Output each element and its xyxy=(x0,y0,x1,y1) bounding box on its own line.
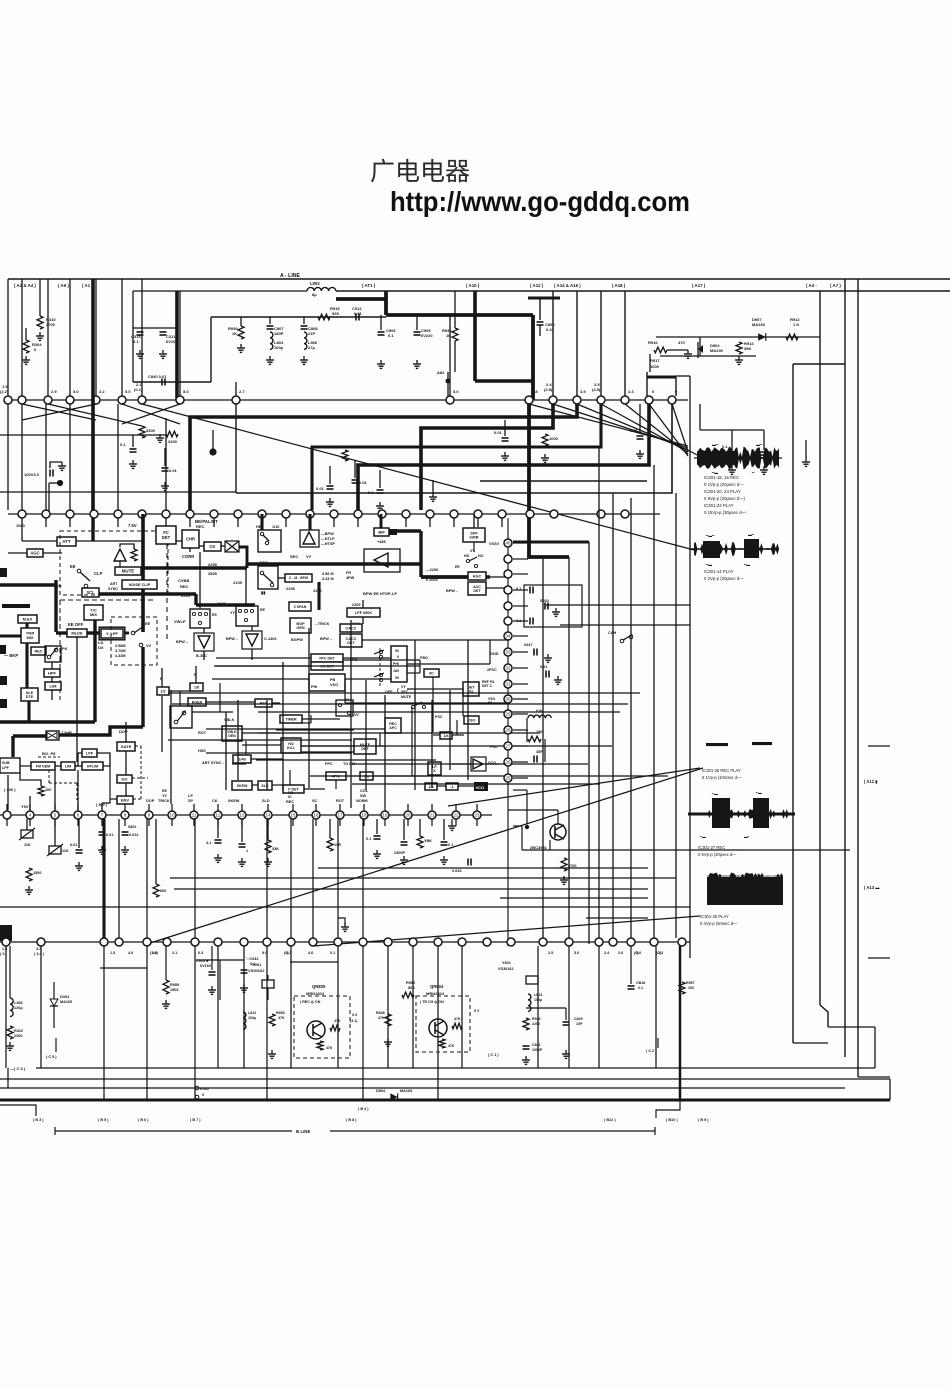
svg-text:3.58 M: 3.58 M xyxy=(322,572,334,576)
svg-text:9C: 9C xyxy=(429,671,434,675)
box 1/40 xyxy=(233,755,251,763)
svg-text:1.5: 1.5 xyxy=(110,951,115,955)
svg-text:8μ: 8μ xyxy=(312,292,317,297)
wire right verticals to row4 xyxy=(542,557,544,938)
svg-text:0.1: 0.1 xyxy=(120,442,126,447)
svg-text:2FSC: 2FSC xyxy=(487,668,497,672)
svg-text:BO- P8: BO- P8 xyxy=(42,751,56,756)
gnd far right xyxy=(805,458,807,462)
svg-text:SKEW: SKEW xyxy=(228,799,240,803)
dashed fm dem down xyxy=(48,770,50,783)
wire top-right horizontal d-row xyxy=(656,336,820,338)
wire branch to diodes xyxy=(699,337,701,356)
svg-text:╾▬: ╾▬ xyxy=(699,835,706,839)
resistor 660 xyxy=(153,884,159,897)
capacitor 3.1 xyxy=(217,819,219,838)
svg-text:AGC: AGC xyxy=(30,551,39,556)
svg-text:MA165: MA165 xyxy=(60,1000,72,1004)
svg-text:470: 470 xyxy=(678,340,685,345)
svg-text:5.0: 5.0 xyxy=(453,389,459,394)
svg-text:18: 18 xyxy=(362,813,367,818)
svg-text:15K: 15K xyxy=(536,730,543,734)
wire thick y722 to left xyxy=(0,720,95,723)
svg-text:0.01: 0.01 xyxy=(630,428,639,433)
switch EE VV left xyxy=(77,569,81,573)
svg-text:23: 23 xyxy=(475,813,480,818)
svg-text:IC301-27 REC: IC301-27 REC xyxy=(698,845,725,850)
wire b-line xyxy=(55,1130,292,1132)
svg-text:YY: YY xyxy=(230,611,236,615)
svg-text:100μ: 100μ xyxy=(534,998,542,1002)
node row4 x244 xyxy=(240,938,248,946)
svg-text:DTE: DTE xyxy=(26,695,34,699)
svg-text:90: 90 xyxy=(395,676,399,680)
svg-text:YBK: YBK xyxy=(424,839,432,843)
wire thick drop 262 xyxy=(260,514,263,530)
svg-text:GND: GND xyxy=(490,652,499,656)
svg-text:30: 30 xyxy=(506,697,511,702)
svg-text:R848: R848 xyxy=(376,1011,385,1015)
node row1 x672 xyxy=(668,396,676,404)
wire pin row 4 xyxy=(0,941,690,943)
svg-text:R955: R955 xyxy=(170,983,179,987)
box BM xyxy=(374,528,389,536)
box 4PHI xyxy=(326,772,346,780)
svg-text:SP: SP xyxy=(188,799,194,803)
wire thick left block bars xyxy=(0,583,55,586)
capacitor r4 xyxy=(761,451,768,453)
svg-text:0 4Vp-p (5msec d—: 0 4Vp-p (5msec d— xyxy=(700,921,738,926)
svg-text:28: 28 xyxy=(506,728,511,733)
svg-text:0.033: 0.033 xyxy=(452,869,462,873)
svg-text:160: 160 xyxy=(688,986,694,990)
svg-text:http://www.go-gddq.com: http://www.go-gddq.com xyxy=(390,186,690,217)
svg-text:0 1: 0 1 xyxy=(448,843,453,847)
node row4 x41 xyxy=(37,938,45,946)
amp right small xyxy=(471,757,486,771)
wire long horiz y435 xyxy=(0,434,166,436)
svg-text:SC: SC xyxy=(312,799,318,803)
amp tri C-1403 xyxy=(242,631,262,649)
svg-text:( C 2 ): ( C 2 ) xyxy=(646,1049,657,1053)
wire row3 stubs up xyxy=(6,804,8,811)
capacitor C906 xyxy=(380,315,382,330)
node row4 x218 xyxy=(214,938,222,946)
box YNR MIX xyxy=(21,628,39,643)
box H/2 KILL xyxy=(281,738,301,753)
dashed boundary y600 xyxy=(60,599,156,601)
svg-text:□ C942: □ C942 xyxy=(246,957,258,961)
node row3 pin 19 xyxy=(381,811,389,819)
svg-text:0 5Vp-p (20μsec d—: 0 5Vp-p (20μsec d— xyxy=(698,852,737,857)
svg-text:ART: ART xyxy=(110,582,118,586)
svg-text:SKEW: SKEW xyxy=(237,784,248,788)
svg-text:19: 19 xyxy=(383,813,388,818)
wire bottom stubs xyxy=(103,1068,105,1100)
capacitor 0.01 b3b xyxy=(99,831,106,833)
svg-text:6.3: 6.3 xyxy=(198,951,203,955)
capacitor C900 xyxy=(537,321,544,323)
amp box BPW NTLP HTSP xyxy=(300,530,319,547)
svg-text:—NTLP: —NTLP xyxy=(321,537,335,541)
node dot 100v xyxy=(57,480,63,486)
wire x690 long vertical xyxy=(689,376,691,958)
resistor 2200 inter-row xyxy=(166,431,178,437)
svg-text:LPF: LPF xyxy=(86,751,94,755)
svg-text:—2206: —2206 xyxy=(426,568,438,572)
svg-text:1.8: 1.8 xyxy=(532,389,538,394)
waveform IC301-18 blob xyxy=(697,446,779,469)
svg-text:34: 34 xyxy=(506,634,511,639)
box ACC DET xyxy=(468,582,486,595)
box FM DEM xyxy=(31,762,55,770)
amp triangle mute xyxy=(114,549,126,561)
node row2 x190 xyxy=(186,510,194,518)
svg-text:0 15Vp-p (30μsec d—:: 0 15Vp-p (30μsec d—: xyxy=(704,510,747,515)
box LIM 2 xyxy=(61,762,75,770)
svg-text:→TRICK: →TRICK xyxy=(314,622,330,626)
svg-text:L903: L903 xyxy=(310,281,320,286)
svg-text:VCO: VCO xyxy=(488,761,496,765)
svg-text:11K: 11K xyxy=(62,849,69,853)
wire row3 stubs down xyxy=(6,819,8,826)
svg-text:REC: REC xyxy=(260,561,268,565)
capacitor right small xyxy=(467,859,469,866)
svg-text:ART SYNC→: ART SYNC→ xyxy=(202,761,225,765)
svg-text:1505: 1505 xyxy=(170,988,178,992)
svg-text:( B 9 ): ( B 9 ) xyxy=(698,1118,709,1122)
node row1 x70 xyxy=(66,396,74,404)
svg-text:DET: DET xyxy=(162,535,171,540)
wire bottom verticals xyxy=(5,946,7,1068)
svg-text:D804: D804 xyxy=(376,1089,386,1093)
pointer line IC301-26 xyxy=(448,768,700,806)
svg-text:2300: 2300 xyxy=(14,1034,22,1038)
wire thick y570 right xyxy=(143,566,247,570)
wire bottom line 2 xyxy=(0,1078,890,1080)
svg-text:6.01: 6.01 xyxy=(70,843,77,847)
svg-text:7.5dB: 7.5dB xyxy=(61,730,72,735)
svg-text:╾▬╾: ╾▬╾ xyxy=(705,534,715,538)
wire thick vertical x104 xyxy=(102,819,105,938)
node row4 x313 xyxy=(309,938,317,946)
node row2 x142 xyxy=(138,510,146,518)
wire elbow G xyxy=(480,480,647,482)
svg-text:CK: CK xyxy=(212,799,218,803)
wire pin column xyxy=(507,518,509,946)
svg-text:0.1: 0.1 xyxy=(366,837,371,841)
svg-text:ROT: ROT xyxy=(336,799,345,803)
capacitor 1 b3 xyxy=(241,819,243,842)
node row4 x338 xyxy=(334,938,342,946)
svg-text:0.1: 0.1 xyxy=(250,962,255,966)
transistor 2BC3931 xyxy=(550,824,566,840)
long wire y889 xyxy=(174,888,648,890)
wire thick drop 381 xyxy=(380,514,383,528)
wire thick drop x93 xyxy=(91,279,95,514)
contact block VWLP xyxy=(190,609,210,628)
svg-text:GEN: GEN xyxy=(296,626,304,630)
svg-text:BPW→: BPW→ xyxy=(320,637,333,641)
node row3 pin 18 xyxy=(360,811,368,819)
wire left thick net xyxy=(25,623,28,628)
svg-text:( A2 & A4 ): ( A2 & A4 ) xyxy=(14,283,36,288)
left edge black box low xyxy=(0,925,12,941)
svg-text:180: 180 xyxy=(393,669,399,673)
node row3 pin 23 xyxy=(473,811,481,819)
capacitor 0.1 b3c xyxy=(443,819,445,840)
svg-text:DET C: DET C xyxy=(482,684,493,688)
svg-text:MIX: MIX xyxy=(26,635,33,640)
box 1/a fsc xyxy=(440,732,452,739)
svg-text:660: 660 xyxy=(160,889,166,893)
svg-text:MRN2404: MRN2404 xyxy=(426,991,445,996)
node row1 x48 xyxy=(44,396,52,404)
box AGC xyxy=(27,549,43,557)
svg-text:29: 29 xyxy=(506,712,511,717)
svg-text:15: 15 xyxy=(291,813,296,818)
node row2 x262 xyxy=(258,510,266,518)
wire thick x93 below row2 xyxy=(91,518,94,541)
svg-text:35P: 35P xyxy=(536,750,543,754)
node row1 x625 xyxy=(621,396,629,404)
node column pin 30 xyxy=(504,695,512,703)
svg-text:( 300 ): ( 300 ) xyxy=(4,787,16,792)
long wire y878 xyxy=(170,877,676,879)
node row2 x46 xyxy=(42,510,50,518)
svg-text:VWLP: VWLP xyxy=(174,619,186,624)
resistor 4700 xyxy=(561,858,567,871)
svg-text:— BKP: — BKP xyxy=(4,653,18,658)
capacitor 0.01 a xyxy=(162,467,169,469)
svg-text:( A14 & A16 ): ( A14 & A16 ) xyxy=(554,283,581,288)
node row2 x334 xyxy=(330,510,338,518)
switch pair lower xyxy=(170,706,192,728)
resistor R955 xyxy=(163,980,169,994)
svg-text:2.3: 2.3 xyxy=(628,389,634,394)
wire waveform box bottom xyxy=(793,1042,828,1044)
node row2 x382 xyxy=(378,510,386,518)
node row2 x358 xyxy=(354,510,362,518)
svg-text:PB: PB xyxy=(330,678,336,682)
svg-text:525: 525 xyxy=(332,311,339,316)
svg-text:Y5V: Y5V xyxy=(21,804,29,809)
box SLD xyxy=(258,781,272,790)
svg-text:FPC: FPC xyxy=(325,762,333,766)
svg-text:( TR CH ◎ ON: ( TR CH ◎ ON xyxy=(420,1000,444,1004)
svg-text:A82: A82 xyxy=(437,370,445,375)
svg-text:IC301-22 PLAY: IC301-22 PLAY xyxy=(704,503,734,508)
svg-text:100: 100 xyxy=(45,788,51,792)
svg-text:630R: 630R xyxy=(469,535,478,539)
svg-text:5.0: 5.0 xyxy=(125,389,131,394)
node column pin 574 xyxy=(504,570,512,578)
switch box HB xyxy=(258,530,281,552)
svg-text:(2.8): (2.8) xyxy=(544,387,553,392)
box REC AFC xyxy=(385,718,401,733)
svg-text:CAH: CAH xyxy=(608,631,616,635)
svg-text:▬╾: ▬╾ xyxy=(712,443,719,447)
node row1 x450 xyxy=(446,396,454,404)
svg-text:12: 12 xyxy=(216,813,221,818)
svg-text:K302: K302 xyxy=(200,1087,209,1091)
svg-text:1/16: 1/16 xyxy=(272,525,279,529)
box PHI PB VSO xyxy=(309,674,345,691)
svg-text:33K: 33K xyxy=(272,847,279,851)
node row3 pin 7 xyxy=(3,811,11,819)
svg-text:IC301-20, 24 PLAY: IC301-20, 24 PLAY xyxy=(704,489,741,494)
svg-text:R853: R853 xyxy=(276,1011,285,1015)
svg-text:(1.6): (1.6) xyxy=(150,951,159,955)
svg-text:VSSV: VSSV xyxy=(489,542,500,546)
svg-text:Y. LPF: Y. LPF xyxy=(106,631,119,636)
svg-text:LIM: LIM xyxy=(65,764,72,768)
box VSO right xyxy=(464,716,479,724)
svg-text:10: 10 xyxy=(170,813,175,818)
node row1 x96 xyxy=(92,396,100,404)
svg-text:MUTE: MUTE xyxy=(401,695,412,699)
box PSD xyxy=(255,699,272,707)
node column pin 31 xyxy=(504,680,512,688)
svg-text:—HTSP: —HTSP xyxy=(321,542,335,546)
svg-text:HO: HO xyxy=(478,554,484,558)
svg-text:0.1: 0.1 xyxy=(722,444,728,449)
svg-text:MIX: MIX xyxy=(90,612,97,617)
svg-text:R960: R960 xyxy=(406,981,415,985)
svg-text:╾▬: ╾▬ xyxy=(755,791,762,795)
node row1 x649 xyxy=(645,396,653,404)
node row3 pin 17 xyxy=(336,811,344,819)
wire elbow F thick xyxy=(529,404,569,557)
svg-text:DET: DET xyxy=(473,589,481,593)
box CACC xyxy=(340,624,362,632)
switch box REC mid xyxy=(258,566,278,589)
svg-text:C940 0.01: C940 0.01 xyxy=(148,374,167,379)
dashed gate-do-env xyxy=(135,745,141,747)
wire drops right top xyxy=(552,291,554,396)
box MUTE xyxy=(115,567,141,575)
svg-text:▬╾: ▬╾ xyxy=(748,533,755,537)
svg-text:C - M - BPW: C - M - BPW xyxy=(289,576,309,580)
svg-text:DX: DX xyxy=(98,645,104,650)
svg-text:BGPW: BGPW xyxy=(291,638,303,642)
gnd mid lower xyxy=(338,918,345,925)
svg-text:( B 5 ): ( B 5 ) xyxy=(98,1118,109,1122)
node row3 pin 14 xyxy=(264,811,272,819)
svg-text:MLDE: MLDE xyxy=(71,630,83,635)
svg-text:HSS: HSS xyxy=(198,749,206,753)
svg-text:EE: EE xyxy=(260,608,266,612)
svg-text:R322: R322 xyxy=(14,1029,23,1033)
box T/C MIX xyxy=(84,605,103,620)
node row2 x454 xyxy=(450,510,458,518)
svg-text:R917: R917 xyxy=(650,358,660,363)
wire thick elbow A xyxy=(190,404,577,510)
svg-text:3300: 3300 xyxy=(146,428,156,433)
capacitor 0.1 l1 xyxy=(132,435,134,447)
svg-text:5.0: 5.0 xyxy=(73,389,79,394)
svg-text:0.01: 0.01 xyxy=(359,480,368,485)
resistor 33K xyxy=(267,819,269,840)
inductor L804 xyxy=(270,332,273,349)
node row1 x8 xyxy=(4,396,12,404)
svg-text:—( C 6 ): —( C 6 ) xyxy=(10,1066,26,1071)
svg-text:33: 33 xyxy=(506,650,511,655)
wire pin row 1 xyxy=(8,399,688,401)
node row4 x291 xyxy=(287,938,295,946)
svg-text:( A13 ▬: ( A13 ▬ xyxy=(864,885,880,890)
svg-text:90: 90 xyxy=(395,649,399,653)
node column pin 28 xyxy=(504,726,512,734)
box M.EX xyxy=(18,615,37,623)
wire thick cm-bpw down xyxy=(317,582,320,610)
svg-text:27μ: 27μ xyxy=(308,345,315,350)
svg-text:1000: 1000 xyxy=(650,364,660,369)
node column pin 40 xyxy=(504,539,512,547)
waveform IC301-26 dashes xyxy=(706,743,728,746)
node row1 x180 xyxy=(176,396,184,404)
node row1 x236 xyxy=(232,396,240,404)
wire thick tcmix down x95 xyxy=(93,620,96,722)
svg-text:S802: S802 xyxy=(128,825,136,829)
node column pin 34 xyxy=(504,632,512,640)
dashed region left xyxy=(60,531,168,595)
node column pin 559 xyxy=(504,555,512,563)
svg-text:2.7: 2.7 xyxy=(239,389,245,394)
svg-text:11: 11 xyxy=(192,813,197,818)
svg-text:BPW→: BPW→ xyxy=(226,637,239,641)
svg-text:56K: 56K xyxy=(408,986,415,990)
svg-text:VSO: VSO xyxy=(467,718,475,722)
node row3 pin 8 xyxy=(121,811,129,819)
svg-text:21: 21 xyxy=(430,813,435,818)
svg-text:2.5: 2.5 xyxy=(548,951,553,955)
svg-text:5.0: 5.0 xyxy=(183,389,189,394)
wire drops top to row1 xyxy=(7,279,9,396)
node column pin 29 xyxy=(504,710,512,718)
svg-text:0.1: 0.1 xyxy=(516,587,521,591)
svg-text:╾▬: ╾▬ xyxy=(711,792,718,796)
capacitor C807 xyxy=(269,317,271,324)
svg-text:广电电器: 广电电器 xyxy=(370,158,470,186)
svg-text:( A7 ): ( A7 ) xyxy=(830,283,841,288)
svg-text:FR: FR xyxy=(346,571,351,575)
svg-text:MA165: MA165 xyxy=(752,322,766,327)
wire thick mlde row xyxy=(56,631,67,634)
node row4 x511 xyxy=(507,938,515,946)
wire thick mute column xyxy=(141,514,145,632)
dashed region YLPF xyxy=(111,617,157,665)
pointer IC301-25 xyxy=(313,916,700,946)
node row3 pin 4 xyxy=(26,811,34,819)
box LPF 2 xyxy=(82,749,97,757)
svg-text:SLD: SLD xyxy=(262,799,270,803)
varistor 11K a xyxy=(21,830,33,838)
box SCL xyxy=(82,588,99,597)
capacitor 0.1 r3 xyxy=(729,451,736,453)
wire long horiz y492 xyxy=(0,491,236,493)
node row4 x267 xyxy=(263,938,271,946)
svg-text:BPW EE HTSP-LP: BPW EE HTSP-LP xyxy=(363,591,397,596)
capacitor 0.01 c xyxy=(352,479,359,481)
svg-text:7.5V: 7.5V xyxy=(128,523,137,528)
node dot1 xyxy=(209,448,216,455)
wire 1/2 feed xyxy=(161,696,163,752)
svg-text:13: 13 xyxy=(240,813,245,818)
svg-text:C-1403: C-1403 xyxy=(264,637,276,641)
wire thick bottom x680 xyxy=(679,946,682,1100)
svg-text:CK: CK xyxy=(209,544,215,549)
